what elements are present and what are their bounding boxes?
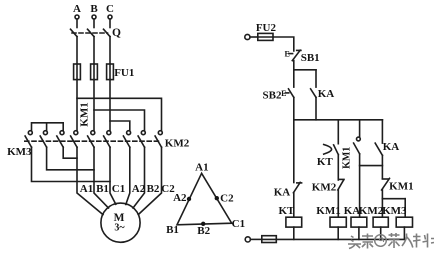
- node C: [106, 3, 114, 19]
- svg-text:KM1: KM1: [389, 181, 413, 193]
- wire branch2 bus to KT contact: [337, 120, 339, 144]
- wire SB2 down to bus: [293, 97, 295, 119]
- svg-text:KM1: KM1: [342, 147, 353, 169]
- fuse FU1 c: [107, 64, 114, 80]
- motor M: [101, 203, 140, 242]
- wire KM3 coil to bottom bus: [403, 227, 405, 239]
- svg-text:KM3: KM3: [382, 205, 407, 217]
- svg-text:KT: KT: [317, 156, 334, 168]
- wire branch phase B to KM2 middle: [94, 110, 145, 131]
- fuse FU1 a: [74, 64, 81, 80]
- wire phase A fuse to KM1 contact: [76, 80, 78, 131]
- wire KA down to bus: [315, 97, 317, 119]
- node A: [73, 3, 81, 19]
- node B: [90, 3, 98, 19]
- coil KM2: [373, 217, 388, 227]
- contact linkage dashed line: [25, 140, 159, 142]
- svg-text:KA: KA: [318, 88, 335, 100]
- svg-text:KA: KA: [383, 141, 400, 153]
- svg-text:KT: KT: [279, 205, 296, 217]
- wire KT coil to bottom bus: [293, 227, 295, 239]
- wire split to KA contact: [315, 70, 317, 87]
- watermark: [348, 233, 434, 249]
- node horizontal join: [360, 165, 383, 167]
- svg-text:SB2: SB2: [263, 90, 282, 102]
- svg-text:B2: B2: [147, 183, 160, 195]
- wire KM3 c2 to B1: [47, 147, 94, 170]
- wire branch phase C to KM2 left: [110, 121, 130, 131]
- svg-text:B1: B1: [96, 183, 109, 195]
- fuse bottom: [262, 236, 277, 243]
- relay contact KA (branch1): [293, 182, 301, 192]
- wire KM3 c1 to C1: [32, 147, 111, 181]
- wire A switch to fuse: [76, 37, 78, 64]
- wire C switch to fuse: [109, 37, 111, 64]
- contact KM1 NC: [382, 178, 390, 190]
- wire C2 to motor: [138, 147, 161, 214]
- switch Q pole 1: [71, 29, 78, 36]
- svg-text:KM2: KM2: [312, 181, 337, 193]
- switch Q pole 2: [88, 29, 95, 36]
- wire B1 to motor: [94, 147, 109, 208]
- wire KA coil to bottom bus: [358, 227, 360, 239]
- wire A2 to motor: [126, 147, 130, 204]
- svg-text:KM1: KM1: [316, 205, 340, 217]
- svg-text:A1: A1: [195, 161, 208, 173]
- timer contact KT (delayed close): [324, 145, 339, 155]
- bottom bus: [276, 238, 404, 240]
- svg-text:FU1: FU1: [114, 67, 134, 79]
- svg-text:B2: B2: [197, 225, 210, 237]
- svg-text:C2: C2: [220, 193, 234, 205]
- wire KT contact to KM2 NC: [337, 155, 339, 180]
- wire KM3 c3 to A1: [63, 147, 77, 158]
- wire KM2 coil to bottom bus: [380, 227, 382, 239]
- control bus: [294, 119, 383, 121]
- svg-text:A2: A2: [132, 183, 146, 195]
- svg-text:B1: B1: [166, 224, 179, 236]
- pushbutton SB1 (NC): [285, 50, 301, 61]
- wire KA2 to KM1 NC: [381, 155, 383, 178]
- svg-text:A2: A2: [173, 192, 187, 204]
- wire SB1 to split: [293, 61, 295, 70]
- svg-text:B: B: [90, 3, 98, 15]
- contact KM2 NC: [338, 179, 344, 190]
- contactor KM3 contact 2: [40, 131, 47, 148]
- contactor KM2 contact 2: [138, 131, 145, 148]
- contactor KM1 contact 2: [88, 131, 95, 148]
- wire phase C fuse to KM1 contact: [109, 80, 111, 131]
- svg-text:KA: KA: [274, 187, 291, 199]
- svg-text:KM1: KM1: [79, 102, 91, 126]
- wire branch phase A to KM2 right: [77, 98, 162, 130]
- wire to KM3 coil: [404, 199, 406, 218]
- wire branch4 bus to KA contact 2: [381, 120, 383, 143]
- fuse FU2: [258, 33, 273, 40]
- wire B switch to fuse: [93, 37, 95, 64]
- wire split to SB2: [293, 70, 295, 87]
- svg-text:A1: A1: [80, 183, 93, 195]
- wire KA to KT coil: [293, 193, 295, 217]
- delta node C2 dot: [215, 196, 219, 200]
- control terminal bottom: [245, 237, 250, 242]
- wire KM2 NC to KM1 coil: [337, 190, 339, 217]
- wire fuse to terminal: [250, 238, 261, 240]
- wire FU2 to SB1: [273, 37, 294, 51]
- relay contact KA 2: [375, 143, 382, 155]
- contactor KM1 contact 1: [71, 131, 78, 148]
- wire KM1 coil to bottom bus: [337, 227, 339, 239]
- svg-text:Q: Q: [112, 27, 121, 39]
- wire phase B fuse to KM1 contact: [93, 80, 95, 131]
- wire phase A drop to switch: [76, 19, 78, 27]
- contactor KM2 contact 1: [123, 131, 130, 148]
- wire junction to KM2 coil: [381, 199, 383, 218]
- svg-text:C1: C1: [112, 183, 125, 195]
- coil KA: [351, 217, 367, 227]
- wire KM1 NO down to KA coil: [359, 154, 361, 217]
- pushbutton SB2 (NO): [281, 89, 294, 98]
- svg-text:KM3: KM3: [7, 146, 32, 158]
- fuse FU1 b: [91, 64, 98, 80]
- contactor KM2 contact 3: [155, 131, 162, 148]
- wire phase B drop to switch: [93, 19, 95, 27]
- delta node B2 dot: [201, 222, 205, 226]
- contactor KM1 contact 3: [104, 131, 111, 148]
- coil KT: [286, 217, 302, 227]
- svg-text:3~: 3~: [114, 223, 125, 234]
- wire B2 to motor: [133, 147, 145, 208]
- svg-text:FU2: FU2: [256, 22, 277, 34]
- svg-text:SB1: SB1: [301, 52, 320, 64]
- wire branch1 bus to KA contact: [293, 120, 295, 183]
- delta node A2 dot: [187, 197, 191, 201]
- svg-text:C: C: [106, 3, 114, 15]
- switch Q pole 3: [104, 29, 111, 36]
- switch Q linkage dashed: [72, 32, 108, 34]
- junction horizontal to KM3: [382, 198, 405, 200]
- contact KM1 NO (self hold): [354, 137, 361, 154]
- wire phase C drop to switch: [109, 19, 111, 27]
- relay contact KA (seal-in): [311, 89, 316, 98]
- wire KM1 NC to junction: [381, 190, 383, 199]
- coil KM3: [396, 217, 412, 227]
- wire A1 to motor: [77, 147, 103, 214]
- svg-text:A: A: [73, 3, 81, 15]
- coil KM1: [330, 217, 346, 227]
- wire C1 to motor: [110, 147, 116, 204]
- svg-text:C1: C1: [232, 218, 245, 230]
- wire branch3 bus to KM1 NO: [359, 120, 361, 137]
- wire terminal to FU2: [250, 36, 258, 38]
- svg-text:KM2: KM2: [359, 205, 384, 217]
- contactor KM3 contact 1: [25, 131, 32, 148]
- control terminal top: [245, 34, 250, 39]
- delta diagram triangle: [177, 173, 232, 225]
- wire split horizontal: [294, 69, 316, 71]
- contactor KM3 contact 3: [57, 131, 64, 148]
- KM3 star bus stub middle: [46, 123, 48, 131]
- KM3 star bus: [32, 123, 64, 131]
- svg-text:KM2: KM2: [165, 138, 190, 150]
